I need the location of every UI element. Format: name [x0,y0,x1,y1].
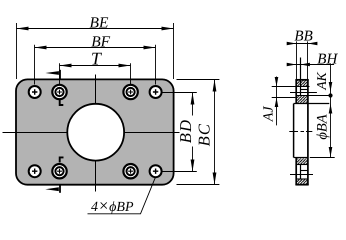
dimension BH [287,51,339,67]
dimension BB [287,28,318,79]
bottom hole line M3 [290,174,313,176]
section outline right edge [307,80,309,185]
counterbore divider top [300,58,302,96]
plate body (front view) [16,79,174,184]
centre line of section [289,131,312,133]
dimension AK [314,64,333,158]
hole line L4 [296,95,331,97]
dimension BE [17,14,174,79]
top hatch band B [296,96,308,103]
boss left edge [293,104,295,158]
big hole bottom ext line [310,157,335,159]
bottom hole line M1 [296,164,308,166]
bottom hole line M4 [296,178,308,180]
big hole top edge [294,103,330,105]
svg-text:BB: BB [294,28,312,44]
bottom hole line M2 [301,170,308,172]
bolt hole top-right outer [150,86,162,98]
bolt hole bottom-left outer [29,165,41,177]
label 4xphiBP with leader [88,177,156,215]
dimension phiBA [315,104,333,158]
counterbore ext line L5 [272,97,296,99]
section outline left edge lower [295,158,297,185]
svg-text:BD: BD [176,119,195,143]
bottom edge [295,184,308,186]
counterbore top line L1 [272,86,310,88]
hole line L2 [301,89,308,91]
dimension BD [163,93,197,172]
center hole [67,104,124,161]
svg-text:BE: BE [90,14,109,31]
top edge [295,79,308,81]
section cut jog above bottom inner hole [60,157,64,162]
section cut jog below top inner hole [60,100,64,105]
section cut mark bottom [45,185,60,193]
section outline left edge upper [295,80,297,104]
dimension BF [35,33,156,84]
boss bottom step [294,157,308,159]
svg-text:ϕBA: ϕBA [315,114,331,139]
counterbored hole bottom-left inner [52,164,66,178]
bolt hole bottom-right outer [150,165,162,177]
counterbored hole top-right inner [123,85,137,99]
svg-text:BH: BH [317,51,338,67]
svg-text:AJ: AJ [262,106,277,123]
horizontal center line [3,132,180,134]
counterbored hole top-left inner [52,85,66,99]
section cut mark top [45,70,60,80]
svg-text:AK: AK [314,71,329,90]
bottom counterbore divider [300,165,302,180]
counterbored hole bottom-right inner [123,164,137,178]
vertical center line [95,75,97,192]
top hatch band A [296,81,308,87]
bottom hatch band A [296,158,308,164]
bolt hole top-left outer [29,86,41,98]
svg-text:BC: BC [195,123,214,146]
bottom hatch band B [296,179,308,184]
dimension AJ [262,77,279,126]
dimension BC [177,80,220,185]
dimension T [60,48,131,84]
hole line L3 [290,92,317,94]
